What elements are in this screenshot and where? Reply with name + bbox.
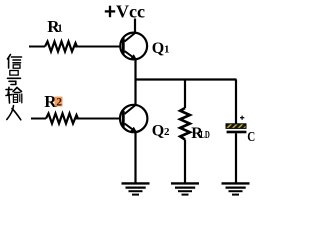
svg-text:2: 2 bbox=[56, 96, 62, 108]
svg-text:LD: LD bbox=[200, 129, 210, 141]
svg-text:2: 2 bbox=[164, 126, 170, 138]
svg-text:1: 1 bbox=[164, 44, 170, 56]
svg-text:C: C bbox=[247, 130, 255, 145]
svg-text:Vcc: Vcc bbox=[116, 1, 145, 21]
svg-text:Q: Q bbox=[152, 40, 164, 57]
svg-text:Q: Q bbox=[152, 123, 164, 140]
svg-text:1: 1 bbox=[57, 23, 63, 35]
